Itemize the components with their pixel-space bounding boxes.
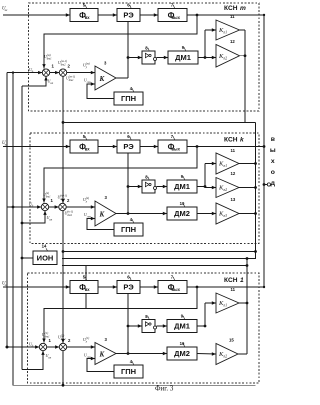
svg-text:в: в	[271, 136, 275, 143]
svg-text:РЭ: РЭ	[123, 283, 134, 292]
svg-text:гпн: гпн	[87, 355, 92, 359]
svg-text:(1): (1)	[86, 336, 89, 340]
svg-text:вх: вх	[85, 146, 91, 151]
svg-text:12: 12	[230, 39, 235, 44]
svg-text:(м): (м)	[47, 53, 51, 57]
svg-text:11: 11	[231, 148, 236, 153]
svg-text:дм1: дм1	[47, 56, 52, 60]
svg-text:п2: п2	[224, 355, 228, 359]
svg-text:РЭ: РЭ	[123, 142, 134, 151]
svg-text:дм2: дм2	[60, 197, 65, 201]
svg-text:вых: вых	[171, 15, 180, 20]
svg-text:ДМ2: ДМ2	[174, 209, 190, 218]
svg-text:11: 11	[230, 14, 235, 19]
svg-text:11: 11	[231, 287, 236, 292]
svg-text:ГПН: ГПН	[121, 367, 136, 376]
svg-text:КСН: КСН	[224, 137, 238, 144]
svg-text:дм2: дм2	[61, 62, 66, 66]
svg-text:дм1: дм1	[45, 334, 50, 338]
svg-text:п1: п1	[224, 31, 228, 35]
svg-text:дм1: дм1	[67, 213, 72, 217]
svg-text:k: k	[240, 137, 244, 144]
svg-text:ГПН: ГПН	[121, 94, 136, 103]
svg-text:д: д	[271, 180, 276, 187]
svg-text:о: о	[271, 169, 275, 176]
svg-text:ДМ1: ДМ1	[174, 182, 190, 191]
svg-text:КСН: КСН	[224, 277, 238, 284]
svg-text:дм1: дм1	[46, 194, 51, 198]
svg-text:(1): (1)	[45, 331, 48, 335]
svg-text:14: 14	[42, 244, 47, 249]
svg-text:ДМ1: ДМ1	[175, 53, 191, 62]
svg-text:ДМ2: ДМ2	[174, 349, 190, 358]
svg-text:дм1: дм1	[69, 78, 74, 82]
svg-text:(к): (к)	[46, 191, 49, 195]
svg-text:(2): (2)	[61, 333, 64, 337]
svg-text:вых: вых	[171, 287, 180, 292]
svg-text:дм2: дм2	[61, 337, 66, 341]
svg-text:п3: п3	[224, 214, 228, 218]
svg-text:п1: п1	[224, 304, 228, 308]
svg-text:ГПН: ГПН	[121, 225, 136, 234]
svg-text:п2: п2	[224, 188, 228, 192]
svg-text:13: 13	[231, 197, 236, 202]
svg-text:вх: вх	[85, 15, 91, 20]
svg-text:1: 1	[240, 277, 244, 284]
svg-text:(к-1): (к-1)	[67, 209, 73, 213]
svg-text:х: х	[271, 158, 275, 165]
svg-text:вх: вх	[85, 287, 91, 292]
svg-text:гпн: гпн	[87, 80, 92, 84]
svg-text:п1: п1	[224, 164, 228, 168]
svg-text:Фиг. 3: Фиг. 3	[155, 385, 174, 393]
svg-text:ДМ1: ДМ1	[174, 322, 190, 331]
svg-text:m: m	[240, 5, 246, 12]
svg-text:(м-1): (м-1)	[61, 59, 67, 63]
svg-text:(м-1): (м-1)	[69, 74, 75, 78]
svg-text:РЭ: РЭ	[123, 11, 134, 20]
svg-text:12: 12	[231, 171, 236, 176]
svg-text:(м): (м)	[86, 61, 90, 65]
svg-text:15: 15	[229, 338, 234, 343]
svg-text:п2: п2	[224, 56, 228, 60]
svg-text:гпн: гпн	[87, 214, 92, 218]
svg-text:КСН: КСН	[224, 5, 238, 12]
svg-text:(к): (к)	[86, 196, 89, 200]
svg-text:ИОН: ИОН	[37, 253, 54, 262]
svg-text:ы: ы	[270, 147, 276, 154]
svg-text:(к+1): (к+1)	[60, 193, 67, 197]
svg-text:вых: вых	[171, 146, 180, 151]
